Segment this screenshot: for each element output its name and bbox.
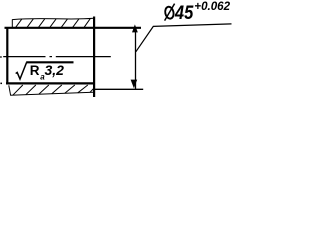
strip top thin line <box>12 18 93 19</box>
left edge <box>6 27 8 84</box>
hatch lines <box>13 85 23 95</box>
dimension line <box>135 28 137 89</box>
strip left boundary <box>11 19 13 27</box>
bottom hardened-zone strip <box>9 85 94 95</box>
top edge (extends right as extension line) <box>5 27 142 29</box>
svg-text:3,2: 3,2 <box>45 62 65 78</box>
svg-text:+0.062: +0.062 <box>194 0 230 13</box>
strip bottom thin line <box>10 92 93 95</box>
bottom extension line <box>94 88 143 90</box>
svg-text:45: 45 <box>174 2 194 23</box>
strip left boundary <box>9 85 11 95</box>
dimension arrow down <box>131 80 138 89</box>
radical overbar <box>26 61 73 63</box>
svg-text:R: R <box>30 63 40 78</box>
top hardened-zone strip <box>12 18 93 27</box>
dimension arrow up <box>132 24 138 32</box>
right edge (extends up and down past strips) <box>93 17 95 98</box>
part outline rectangle <box>5 17 142 98</box>
stray scan mark <box>0 83 2 85</box>
diameter symbol Ø <box>164 4 175 21</box>
hatch lines <box>16 19 22 27</box>
centerline (dash-dot axis) <box>0 56 111 58</box>
surface roughness radical symbol <box>16 62 27 79</box>
bottom edge <box>6 82 95 84</box>
leader line to text <box>136 24 232 52</box>
